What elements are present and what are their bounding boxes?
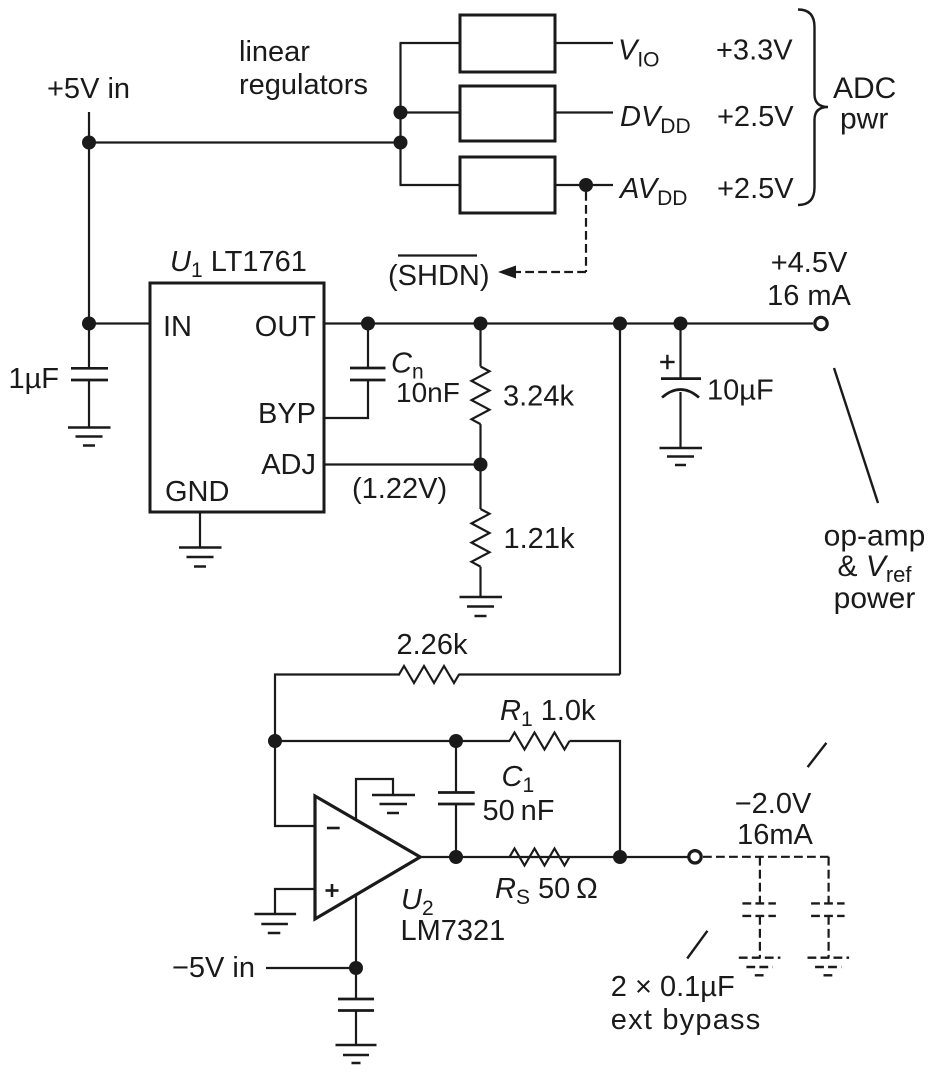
svg-text:C1: C1 — [502, 761, 535, 797]
wire +5V horizontal to regulators — [89, 141, 402, 143]
wire to regulator 3 — [400, 184, 461, 186]
svg-text:(SHDN): (SHDN) — [388, 260, 490, 292]
wire C1 top — [455, 741, 457, 793]
svg-text:VIO: VIO — [618, 35, 660, 72]
ground U1 — [179, 548, 222, 567]
svg-text:R1 1.0k: R1 1.0k — [500, 695, 596, 731]
regulator box 3 — [460, 157, 555, 213]
wire ADJ — [324, 463, 481, 465]
pointer line op-amp power upper — [834, 368, 878, 503]
wire Cn top — [367, 324, 369, 369]
regulator U1 box — [150, 283, 324, 512]
ground ext cap1 dashed — [739, 958, 781, 976]
junction IN node — [82, 317, 96, 331]
ground op-amp top — [372, 795, 415, 813]
svg-text:ext bypass: ext bypass — [611, 1004, 762, 1036]
terminal -2.0V — [689, 851, 701, 863]
junction ADJ node — [474, 458, 488, 472]
regulator box 2 — [460, 86, 555, 141]
junction -5V node — [349, 961, 363, 975]
wire op-amp output — [420, 856, 688, 858]
wire op-amp top pin to ground — [356, 779, 393, 821]
ground ext cap2 dashed — [808, 958, 850, 976]
wire -5V cap to ground — [355, 1011, 357, 1046]
wire DVdd output — [555, 111, 613, 113]
label plus 10uF — [660, 355, 674, 369]
resistor 1.21k — [472, 509, 490, 567]
svg-text:2.26k: 2.26k — [397, 629, 468, 661]
wire shdn dashed vertical — [585, 192, 587, 272]
svg-text:linear: linear — [239, 36, 310, 68]
junction 10uF tap — [674, 317, 688, 331]
wire 2.26k left + inverting feed — [275, 675, 400, 827]
svg-text:2 × 0.1µF: 2 × 0.1µF — [611, 971, 735, 1003]
capacitor 1uF — [71, 368, 108, 380]
terminal +4.5V — [815, 317, 827, 329]
svg-text:regulators: regulators — [239, 69, 368, 101]
wire 1.21k bottom — [479, 567, 481, 597]
svg-text:16mA: 16mA — [737, 819, 813, 851]
wire regulator input bus — [399, 43, 401, 185]
svg-text:−5V in: −5V in — [172, 952, 255, 984]
wire 10uF bottom — [679, 392, 681, 448]
pointer line op-amp power lower — [808, 743, 827, 767]
wire non-inverting input — [275, 889, 315, 914]
wire shdn dashed horizontal — [514, 271, 586, 273]
label plus input — [326, 884, 339, 897]
svg-text:10µF: 10µF — [707, 375, 774, 407]
wire ext cap2 dashed top — [827, 857, 829, 904]
svg-text:1µF: 1µF — [8, 363, 59, 395]
junction 2.26k drop — [613, 317, 627, 331]
svg-text:+3.3V: +3.3V — [716, 35, 793, 67]
wire 3.24k top — [479, 324, 481, 367]
capacitor -5V bypass — [338, 999, 374, 1011]
brace ADC pwr — [798, 10, 828, 206]
regulator box 1 — [460, 15, 555, 72]
svg-text:+4.5V: +4.5V — [771, 247, 848, 279]
svg-text:AVDD: AVDD — [618, 173, 687, 210]
wire -5V in — [266, 967, 356, 969]
wire out-to-2.26k vertical — [619, 324, 621, 675]
capacitor ext bypass 1 dashed — [742, 903, 776, 916]
svg-text:RS 50 Ω: RS 50 Ω — [495, 873, 598, 909]
ground -5V — [336, 1045, 377, 1063]
wire +5V vertical — [88, 112, 90, 368]
junction output node — [613, 850, 627, 864]
capacitor C1 — [438, 793, 475, 805]
wire 1uF to ground — [88, 380, 90, 428]
capacitor 10uF polarized — [661, 379, 701, 398]
svg-text:−2.0V: −2.0V — [735, 788, 812, 820]
wire Cn to BYP — [324, 380, 368, 418]
svg-text:16 mA: 16 mA — [767, 280, 851, 312]
wire ext cap2 dashed bottom — [827, 916, 829, 958]
wire feedback horizontal — [275, 740, 510, 742]
svg-text:+2.5V: +2.5V — [717, 173, 794, 205]
op-amp U2 triangle — [315, 796, 420, 919]
junction C1 top — [449, 734, 463, 748]
svg-text:pwr: pwr — [840, 103, 888, 136]
wire C1 bottom — [455, 804, 457, 857]
junction AVdd shdn tap — [579, 178, 593, 192]
resistor 3.24k — [472, 367, 490, 425]
svg-text:power: power — [834, 582, 916, 615]
wire R1 right down — [570, 741, 621, 857]
svg-text:+5V in: +5V in — [47, 73, 130, 105]
label minus input — [327, 827, 340, 830]
svg-text:BYP: BYP — [258, 398, 316, 430]
svg-text:DVDD: DVDD — [620, 101, 691, 138]
svg-text:OUT: OUT — [255, 311, 317, 343]
svg-text:LM7321: LM7321 — [401, 915, 506, 947]
svg-text:ADC: ADC — [833, 72, 896, 105]
resistor Rs — [510, 849, 570, 866]
junction bus DVdd — [394, 106, 408, 120]
svg-text:+2.5V: +2.5V — [717, 101, 794, 133]
junction bus feed — [394, 136, 408, 150]
svg-text:op-amp: op-amp — [824, 520, 926, 553]
capacitor Cn — [350, 368, 386, 380]
wire ext cap1 dashed bottom — [759, 916, 761, 958]
svg-text:1.21k: 1.21k — [504, 523, 575, 555]
ground 10uF — [660, 448, 703, 465]
svg-text:IN: IN — [163, 311, 192, 343]
wire IN — [89, 322, 150, 324]
arrowhead shdn — [498, 266, 516, 279]
junction +5V feed — [82, 136, 96, 150]
resistor R1 — [510, 733, 570, 750]
svg-text:(1.22V): (1.22V) — [352, 473, 447, 505]
wire OUT — [324, 322, 813, 324]
resistor 2.26k — [399, 666, 459, 683]
wire Vio output — [555, 42, 613, 44]
wire ext cap1 dashed top — [759, 857, 761, 904]
svg-text:50 nF: 50 nF — [483, 795, 555, 827]
wire 10uF top — [679, 324, 681, 379]
wire AVdd output — [555, 184, 613, 186]
wire to regulator 2 — [400, 111, 461, 113]
svg-text:10nF: 10nF — [396, 377, 460, 408]
junction feedback node — [268, 734, 282, 748]
ground 1.21k — [460, 597, 503, 616]
svg-text:GND: GND — [165, 476, 229, 508]
wire GND pin — [199, 512, 201, 547]
overline SHDN — [398, 254, 477, 256]
ground non-inverting — [254, 914, 296, 933]
capacitor ext bypass 2 dashed — [811, 903, 845, 916]
ground 1uF — [68, 428, 111, 446]
wire ext bypass dashed horizontal — [703, 856, 829, 858]
wire 3.24k bottom — [479, 424, 481, 509]
pointer line ext bypass — [687, 931, 707, 959]
svg-text:U1 LT1761: U1 LT1761 — [170, 246, 307, 282]
wire op-amp bottom pin — [355, 895, 357, 999]
wire 2.26k right — [459, 673, 621, 675]
svg-text:ADJ: ADJ — [261, 449, 316, 481]
svg-text:3.24k: 3.24k — [503, 381, 574, 413]
wire to regulator 1 — [400, 42, 461, 44]
junction 3.24k top — [474, 317, 488, 331]
junction Cn tap — [361, 317, 375, 331]
junction C1 bottom — [449, 850, 463, 864]
